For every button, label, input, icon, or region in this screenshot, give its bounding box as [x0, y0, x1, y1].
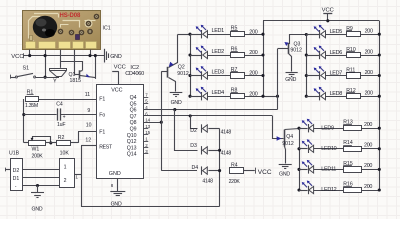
svg-text:7: 7 [145, 92, 148, 97]
svg-text:Q8: Q8 [130, 120, 137, 126]
svg-text:200: 200 [365, 29, 373, 35]
svg-text:GND: GND [32, 207, 43, 213]
svg-text:10K: 10K [60, 151, 70, 157]
svg-text:4148: 4148 [221, 130, 232, 136]
svg-text:GND: GND [109, 171, 121, 177]
svg-text:10: 10 [86, 123, 92, 129]
svg-text:LED8: LED8 [330, 91, 343, 97]
svg-text:200: 200 [365, 49, 373, 55]
svg-text:1: 1 [75, 175, 78, 180]
svg-text:LED4: LED4 [212, 90, 225, 96]
svg-text:D3: D3 [190, 143, 197, 149]
svg-text:IC2: IC2 [130, 65, 139, 71]
svg-text:LED12: LED12 [321, 187, 336, 193]
svg-text:VCC: VCC [11, 54, 23, 60]
svg-text:Q9: Q9 [130, 127, 137, 133]
svg-text:F1: F1 [99, 97, 105, 103]
svg-text:Q4: Q4 [286, 134, 293, 140]
svg-text:Q4: Q4 [130, 95, 137, 101]
svg-text:R7: R7 [231, 67, 238, 73]
svg-text:D2: D2 [190, 128, 197, 134]
svg-text:200: 200 [364, 122, 372, 128]
svg-text:11: 11 [85, 92, 90, 98]
svg-text:5: 5 [145, 99, 148, 104]
svg-text:LED3: LED3 [212, 69, 225, 75]
svg-text:GND: GND [285, 77, 296, 83]
svg-text:Q12: Q12 [127, 139, 137, 145]
svg-text:D2: D2 [13, 168, 20, 174]
svg-text:Q14: Q14 [127, 152, 137, 158]
svg-text:Q7: Q7 [130, 114, 137, 120]
svg-text:220K: 220K [229, 179, 241, 185]
svg-text:8: 8 [111, 183, 114, 188]
svg-text:1: 1 [145, 137, 148, 142]
svg-text:R9: R9 [346, 26, 353, 32]
svg-text:4148: 4148 [202, 178, 213, 184]
svg-text:Q13: Q13 [127, 145, 137, 151]
svg-text:LED2: LED2 [212, 49, 225, 55]
svg-text:D1: D1 [13, 176, 20, 182]
svg-text:LED7: LED7 [330, 71, 343, 77]
svg-text:9012: 9012 [177, 71, 189, 77]
svg-text:D4: D4 [192, 165, 199, 171]
svg-text:LED10: LED10 [321, 146, 336, 152]
svg-text:R12: R12 [346, 88, 356, 94]
svg-text:GND: GND [110, 54, 122, 60]
svg-text:14: 14 [145, 118, 150, 123]
svg-text:200: 200 [365, 70, 373, 76]
svg-text:Q10: Q10 [127, 133, 137, 139]
svg-text:R10: R10 [346, 47, 356, 53]
svg-text:1815: 1815 [70, 78, 82, 84]
svg-text:Q3: Q3 [294, 41, 301, 47]
svg-text:F1: F1 [99, 129, 105, 135]
svg-text:LED1: LED1 [212, 28, 225, 34]
svg-text:200: 200 [365, 91, 373, 97]
svg-text:CD4060: CD4060 [125, 71, 144, 77]
svg-text:VCC: VCC [258, 169, 272, 176]
svg-text:Y: Y [53, 78, 57, 84]
svg-text:LED9: LED9 [321, 125, 334, 131]
svg-text:1uF: 1uF [57, 122, 65, 128]
svg-text:200: 200 [364, 143, 372, 149]
svg-text:200: 200 [364, 163, 372, 169]
svg-text:LED6: LED6 [330, 50, 343, 56]
svg-text:HS-D08: HS-D08 [60, 13, 82, 19]
svg-text:S1: S1 [23, 65, 30, 71]
svg-text:1.35M: 1.35M [25, 103, 38, 109]
svg-text:W1: W1 [32, 146, 40, 152]
svg-text:Q2: Q2 [178, 65, 185, 71]
svg-text:12: 12 [85, 138, 91, 144]
svg-text:LED5: LED5 [330, 29, 343, 35]
svg-text:LED11: LED11 [321, 167, 336, 173]
svg-text:200K: 200K [32, 154, 44, 160]
svg-text:4148: 4148 [221, 151, 232, 157]
svg-text:Q6: Q6 [130, 108, 137, 114]
svg-text:U1B: U1B [9, 151, 20, 157]
svg-text:1: 1 [64, 164, 67, 170]
svg-text:VCC: VCC [114, 64, 126, 70]
svg-text:200: 200 [364, 184, 372, 190]
svg-text:Fo: Fo [99, 113, 105, 119]
svg-text:VCC: VCC [322, 8, 334, 14]
svg-text:9012: 9012 [282, 141, 294, 147]
svg-text:IC1: IC1 [103, 26, 111, 32]
svg-text:9012: 9012 [290, 48, 302, 54]
svg-text:-: - [15, 184, 17, 190]
svg-text:GND: GND [171, 100, 182, 106]
svg-text:+: + [63, 115, 66, 121]
svg-text:R15: R15 [343, 161, 353, 167]
svg-text:VCC: VCC [111, 87, 122, 93]
svg-text:2: 2 [64, 178, 67, 184]
svg-text:9: 9 [87, 108, 90, 114]
svg-text:REST: REST [99, 144, 113, 150]
svg-text:C4: C4 [56, 101, 63, 107]
svg-text:Q5: Q5 [130, 101, 137, 107]
svg-text:GND: GND [279, 171, 290, 177]
